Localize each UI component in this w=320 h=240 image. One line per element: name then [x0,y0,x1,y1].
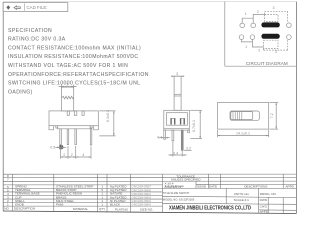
contact prong 1b [174,118,175,125]
dim 7.2 line (top view) [275,103,277,130]
body (side) [164,110,190,130]
wire bracket position1 bottom [242,40,253,42]
svg-text:APPD: APPD [260,210,269,214]
terminal circle bottom-4 [287,35,292,40]
sheet left border [2,2,4,211]
svg-text:C4NC2004-09644: C4NC2004-09644 [132,204,152,207]
svg-text:3.2: 3.2 [186,146,191,150]
tab 3 on body top [82,111,84,115]
svg-text:14.1±0.1: 14.1±0.1 [236,132,250,136]
svg-text:C4NC2004-09643: C4NC2004-09643 [132,197,152,200]
svg-text:2: 2 [258,48,260,52]
body inner wall (side) [167,113,188,126]
svg-text:UNITS:mm: UNITS:mm [234,192,250,196]
toolbar icon compass [6,5,10,10]
terminal circle bottom-1 [239,35,244,40]
tab 2 on body top [74,111,77,115]
svg-text:C4NC2004-09642: C4NC2004-09642 [132,200,152,203]
svg-text:6.7±0.1: 6.7±0.1 [192,120,196,132]
svg-text:WITHSTAND VOL TAGE:AC 500V FOR: WITHSTAND VOL TAGE:AC 500V FOR 1 MIN [8,63,128,69]
svg-text:INSULATION RESISTANCE:100MohmA: INSULATION RESISTANCE:100MohmAT 500VDC [8,54,139,60]
svg-text:UNLESS SPECIFIED: UNLESS SPECIFIED [171,177,201,181]
svg-text:SIZE NO.: SIZE NO. [140,208,153,212]
svg-text:NO: NO [4,207,9,211]
circuit box left edge [224,2,226,67]
parts table descriptions [15,185,40,207]
terminal circle top-4 [287,23,292,28]
parts table materials [56,185,93,207]
row line r3 left [3,184,163,186]
dim 3 line (front knob) [59,86,77,88]
left leg notch [56,126,58,128]
dim 0.5 arrows at pin1 [55,146,66,148]
row line header top [3,205,163,207]
right mounting leg [94,126,99,130]
revision header labels [197,185,295,189]
dim 2.4 extension lines [172,141,174,156]
svg-text:C4NC2004-09657: C4NC2004-09657 [132,186,152,189]
svg-text:PLATING: PLATING [115,207,129,211]
svg-text:3: 3 [176,72,178,76]
svg-text:DWN: DWN [260,198,267,202]
knob grip hatch [233,112,242,120]
svg-text:DESCRIPTIONS: DESCRIPTIONS [244,185,267,189]
base band (side) [164,128,190,130]
body (front) [49,111,98,126]
dim 6.7 line (side) [199,110,201,138]
svg-text:MODEL NO.:SS-22F3305: MODEL NO.:SS-22F3305 [163,198,195,202]
dim 7.2 extension lines (top view) [270,102,279,104]
contact bridge 1 [170,117,175,119]
dim 14.1 extension lines (top view) [217,130,219,137]
column QTY [106,174,108,212]
svg-text:0.4: 0.4 [157,135,162,139]
row line r3 right / issue header top [196,184,296,186]
svg-text:RATING:DC 30V 0.3A: RATING:DC 30V 0.3A [8,37,66,43]
column units-title [225,188,227,203]
svg-text:C4NC2004-09640: C4NC2004-09640 [132,189,152,192]
shell leg left (side) [164,130,166,139]
svg-text:1: 1 [245,12,247,16]
svg-text:3: 3 [275,50,277,54]
dashed contact box bottom [264,40,278,48]
pin 1 (front) [60,129,62,145]
base strip (front) [58,126,90,129]
left mounting leg [49,126,54,130]
dim 3 extension ticks (front knob) [60,85,62,89]
pin 2 (front) [67,129,69,145]
svg-text:MATERIAL: MATERIAL [73,207,89,211]
column tolerance right [195,181,197,188]
shell leg right (side) [188,130,190,133]
dashed wire bracket position3 top [265,11,288,22]
pin long (side) [181,130,183,150]
wire bracket position1 top [242,18,253,23]
dim 3.2 leader [184,149,192,151]
svg-text:4: 4 [82,153,84,157]
right leg notch [90,126,92,128]
spring zigzag inside knob [62,96,74,99]
dim 6.7 extension ticks (side) [190,109,202,111]
body (top view) [218,103,269,130]
sheet top border [3,1,297,3]
svg-text:DESCRIPTION: DESCRIPTION [14,207,35,211]
bottom dim extension lines from pins [60,148,62,159]
dim 3 line (side knob) [171,75,184,77]
row line r6 left [3,195,163,197]
svg-text:CH'D: CH'D [260,204,268,208]
toolbar separator [24,3,26,10]
row line r5 [3,191,163,193]
contact prong 1a [170,118,171,125]
sheet right border [295,2,297,214]
contact bar bottom [261,34,279,39]
column MATERIAL [97,174,99,212]
column descriptions-appd upper [282,174,284,188]
parts table plating values [110,185,127,207]
svg-text:ISSUE: ISSUE [197,185,206,189]
title-model / units-scale / dwn-top divider (sloped) [163,196,297,197]
column issue-date [208,174,210,188]
svg-text:1: 1 [245,45,247,49]
wire position2 riser top [253,14,264,18]
svg-text:0.5: 0.5 [50,146,55,150]
right height dim line (front) [113,111,115,136]
svg-text:CONTACT RESISTANCE:100mohm MAX: CONTACT RESISTANCE:100mohm MAX (INITIAL) [8,45,141,51]
company top / scale bottom divider (sloped) [163,203,297,204]
parts table qty values [101,185,103,207]
right height dim extension ticks (front) [99,110,115,112]
circuit box bottom edge [225,65,297,67]
svg-text:3: 3 [273,6,275,10]
svg-text:TITLE:SLIDE SWITCH: TITLE:SLIDE SWITCH [163,191,190,195]
svg-text:DATE: DATE [209,185,217,189]
column DESCRIPTION [53,174,55,211]
parts table header row [4,207,153,212]
svg-text:SPECIFICATION: SPECIFICATION [8,28,52,34]
contact bridge 2 [180,117,185,119]
row line r4 / title header bottom [3,187,296,189]
svg-text:XIAMEN JINBEILI ELECTRONICS CO: XIAMEN JINBEILI ELECTRONICS CO.,LTD [169,205,251,211]
dashed wire bracket position3 bottom [264,40,288,51]
column drwg-units [258,188,260,213]
svg-text:OPERATIONFORCE:REFERATTACHSPEC: OPERATIONFORCE:REFERATTACHSPECIFICATION [8,72,149,78]
pin 4 (front) [90,129,92,145]
knob (top view) [231,112,253,120]
row line r2 [3,180,296,182]
pin 3 (front) [75,129,77,145]
knob (front) [61,87,73,111]
knob cap joint lines [174,93,181,95]
toolbar box [3,3,68,12]
knob stem (side) [174,76,181,110]
svg-text:BLACK: BLACK [110,202,121,206]
row line r1 [3,177,296,179]
contact prong 2b [184,118,185,125]
svg-text:1: 1 [101,202,103,206]
slot (top view) [230,111,259,120]
column SIZE NO [162,174,164,212]
wire position2 riser bottom [252,42,263,47]
terminal circle bottom-2 [250,35,255,40]
dim 0.4 arrows (shell leg) [159,137,170,139]
svg-text:SWITCHING LIFE:10000 CYCLES(15: SWITCHING LIFE:10000 CYCLES(15~18C/M UNL [8,81,140,87]
tab 1 on body top [67,111,69,115]
tolerance values text [165,182,184,190]
svg-text:APPD: APPD [285,185,294,189]
svg-text:PA66: PA66 [56,202,64,206]
bottom dim line 2-2-4 [61,156,91,158]
svg-text:DRWG. NO.: DRWG. NO. [260,192,277,196]
dim 0.5 dark blob at pin1 [59,145,63,149]
dim 2.4 line [169,154,187,156]
svg-text:QTY: QTY [99,207,105,211]
svg-text:2: 2 [63,153,65,157]
chd-appd divider [259,209,297,211]
terminal circle top-1 [240,23,245,28]
svg-text:ANGLES ±2°: ANGLES ±2° [165,185,184,189]
svg-text:SCALE:4:1: SCALE:4:1 [234,198,250,202]
svg-text:2.4: 2.4 [173,152,178,156]
svg-text:CAD FILE:: CAD FILE: [27,5,48,10]
sheet bottom border (sloped scan) [3,211,296,214]
svg-text:CIRCUIT DIAGRAM: CIRCUIT DIAGRAM [246,61,288,66]
parts table item numbers [7,174,9,206]
svg-text:2: 2 [71,153,73,157]
column dwn value 1 [267,198,269,214]
specification text block [8,28,149,96]
row line r7 [3,198,163,200]
column PLATING [130,174,132,212]
table outline top [3,173,296,175]
svg-text:2: 2 [257,10,259,14]
column dwn value 2 [282,198,284,214]
svg-text:7.2: 7.2 [270,113,274,118]
toolbar icon back-arrow [14,6,20,9]
parts table size-no codes [132,186,152,207]
terminal circle top-2 [251,23,256,28]
svg-text:OADING): OADING) [8,89,33,95]
dashed contact box top [265,14,278,21]
svg-text:6.1±0.2: 6.1±0.2 [106,110,110,122]
dim 14.1 line (top view) [218,135,269,137]
svg-text:7: 7 [7,178,9,182]
svg-text:3: 3 [66,83,68,87]
contact prong 2a [180,118,181,125]
column date-descriptions [220,174,222,188]
row line r8 [3,202,163,204]
svg-text:C4NC2004-09641: C4NC2004-09641 [132,193,152,196]
column NO [12,174,14,211]
contact bar top [261,22,279,27]
pin short (side) [172,130,174,141]
